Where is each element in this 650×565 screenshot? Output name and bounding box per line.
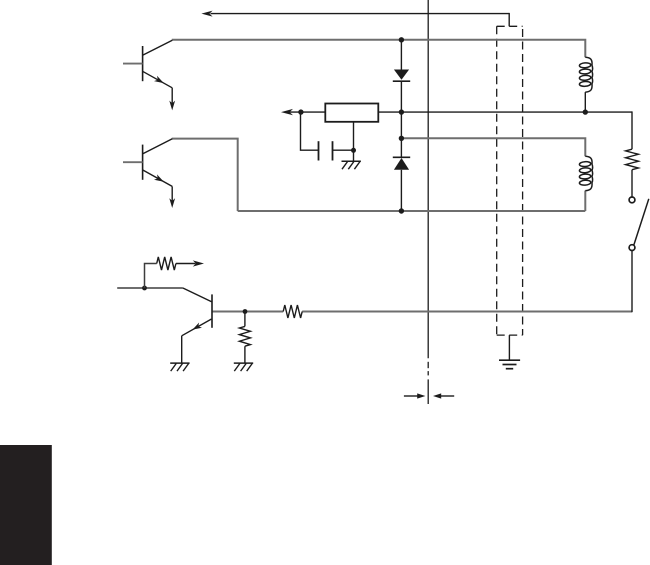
node I junction (base node) xyxy=(243,309,248,314)
wire switch to bottom run xyxy=(631,251,633,313)
node C junction (branch/loop2 top) xyxy=(399,136,404,141)
diode D2 (cathode up) xyxy=(393,157,410,170)
wire Q2 base stub xyxy=(123,161,143,163)
switch S1 contact upper xyxy=(629,197,635,203)
dimension line left with arrow xyxy=(404,393,426,398)
wire Q1 collector diagonal xyxy=(143,40,173,55)
wire Q1 emitter down xyxy=(171,88,173,105)
wire node B to node C xyxy=(400,112,402,138)
arrowhead top feedback (points left) xyxy=(201,11,212,17)
resistor R3 (series base) xyxy=(283,305,302,318)
node A junction (branch/top wire) xyxy=(399,37,404,42)
wire Q3 collector feed xyxy=(117,287,183,289)
box U1 xyxy=(325,104,378,122)
switch S1 contact lower xyxy=(629,245,635,251)
wire Q2 collector run xyxy=(172,139,238,211)
wire Q2 emitter diagonal xyxy=(143,170,173,187)
earth ground (shield) xyxy=(499,360,520,369)
center line axis (dash-dot part) xyxy=(427,362,429,404)
wire loop2 right lower (L2 to loop2 bottom) xyxy=(584,191,586,211)
diode D1 (cathode down) xyxy=(393,70,410,82)
wire D2 to loop2 bottom xyxy=(400,170,402,211)
shield dashed box xyxy=(497,26,523,335)
wire L1 bottom lead xyxy=(584,92,586,112)
wire Q1 emitter diagonal xyxy=(143,71,173,88)
black tab block xyxy=(0,445,52,565)
wire Q3 emitter down xyxy=(181,336,183,363)
arrowhead R2 output (points right) xyxy=(193,260,204,266)
node F junction (box input/cap) xyxy=(298,109,303,114)
wire Q1 base stub xyxy=(123,63,143,65)
inductor L2 xyxy=(579,156,592,190)
switch S1 lever xyxy=(634,199,649,245)
wire R2 to arrow xyxy=(176,263,196,265)
wire D1 to node B xyxy=(400,81,402,112)
wire shield ground stem xyxy=(508,335,510,360)
wire node B row (box to right branch) xyxy=(379,111,632,113)
resistor R2 xyxy=(157,257,176,270)
center line axis (solid part) xyxy=(427,0,429,358)
transistor Q1 bar xyxy=(142,46,144,81)
arrowhead box output (points left) xyxy=(281,109,293,115)
capacitor C1 right plate xyxy=(332,141,334,160)
wire Q3 collector diagonal xyxy=(183,288,212,302)
arrowhead Q1 emitter end (points down) xyxy=(169,101,175,111)
arrowhead Q2 emitter end (points down) xyxy=(169,198,175,208)
wire Q2 collector diagonal xyxy=(143,139,173,154)
wire diode branch upper xyxy=(400,40,402,70)
wire loop2 top (node D2 to L2) xyxy=(401,138,585,156)
wire top feedback line xyxy=(211,13,510,26)
wire loop2 bottom xyxy=(238,210,586,212)
wire box bottom stem xyxy=(353,122,355,161)
inductor L1 xyxy=(579,57,592,92)
wire Q3 emitter diagonal xyxy=(182,319,212,336)
wire right branch vertical upper xyxy=(631,111,633,149)
resistor R1 xyxy=(626,149,639,170)
wire R2 leg up xyxy=(145,264,157,289)
node E junction (L1 bottom/mid wire) xyxy=(583,109,588,114)
wire right branch resistor to switch xyxy=(631,170,633,197)
dimension line right with arrow xyxy=(433,393,454,398)
node H junction (collector feed) xyxy=(142,286,147,291)
wire R4 to ground xyxy=(244,346,246,363)
wire node C to D2 xyxy=(400,138,402,157)
transistor Q2 bar xyxy=(142,145,144,180)
capacitor C1 left plate xyxy=(318,141,320,160)
arrowhead Q1 emitter xyxy=(154,76,164,83)
wire base feed bottom run xyxy=(212,311,632,313)
wire loop1 top (Q1 collector to L1) xyxy=(172,40,586,57)
wire cap right leg xyxy=(333,149,354,151)
node G junction (cap/stem) xyxy=(351,148,356,153)
ground G1 (Q3 emitter) xyxy=(170,363,189,371)
ground G2 (R4) xyxy=(234,363,253,371)
wire cap left leg xyxy=(301,112,319,150)
arrowhead Q2 emitter xyxy=(154,174,164,181)
wire Q2 emitter down xyxy=(171,186,173,202)
arrowhead Q3 emitter (points down-left) xyxy=(193,323,203,330)
node D junction (branch/loop2 bottom) xyxy=(399,208,404,213)
ground G3 (box/cap) xyxy=(342,161,361,169)
wire box output lead xyxy=(290,111,326,113)
node B junction (branch/mid wire) xyxy=(399,109,404,114)
wire R4 leg xyxy=(244,312,246,327)
transistor Q3 bar xyxy=(211,294,213,327)
resistor R4 (to ground) xyxy=(239,326,250,346)
